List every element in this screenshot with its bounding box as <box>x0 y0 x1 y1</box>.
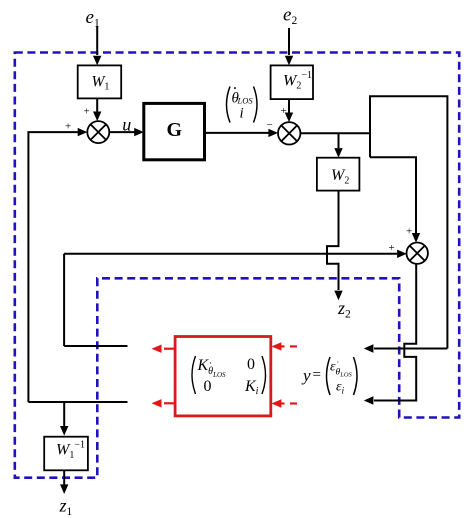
svg-text:+: + <box>281 105 287 117</box>
svg-text:0: 0 <box>204 378 212 395</box>
svg-text:G: G <box>167 119 183 141</box>
red dashed arrows (left outputs) <box>152 345 176 408</box>
svg-text:·: · <box>233 81 237 95</box>
block W2^-1 <box>271 65 313 99</box>
wire W1 to summing junction 1 <box>93 98 101 121</box>
feedback wire into junction 1 from left <box>28 128 87 402</box>
summing junction 1 <box>87 121 109 143</box>
summing junction 2 <box>278 122 300 144</box>
svg-text:+: + <box>84 106 90 118</box>
svg-text:y: y <box>301 366 311 385</box>
wire controller upper output leftward <box>64 345 127 347</box>
block G <box>144 103 205 159</box>
wire e2 to W2inv <box>285 28 293 65</box>
wire G to junction 2 <box>205 129 279 137</box>
red controller box K <box>175 337 271 416</box>
vector label (thetadot_LOS ; i) <box>227 81 258 123</box>
path from loop down into junction 3 <box>370 157 420 242</box>
svg-text:−: − <box>267 119 273 131</box>
vertical from controller upper output up to y=253 <box>63 254 65 346</box>
W2 output with crossover jog and arrow to z2 <box>327 191 343 301</box>
junction 3 output path with jog, to lower y input <box>364 264 416 405</box>
svg-text:=: = <box>313 367 321 383</box>
wire W2inv to junction 2 <box>285 99 293 122</box>
controller matrix <box>192 356 266 397</box>
block W2 <box>317 158 360 191</box>
svg-text:·: · <box>209 358 212 368</box>
branch down to W1inv <box>60 402 68 436</box>
svg-text:+: + <box>389 242 395 254</box>
label y = (eps_thetadot_LOS ; eps_i) <box>301 357 357 397</box>
svg-text:·: · <box>337 358 340 367</box>
right loop: up-and-over path <box>370 96 447 348</box>
wire junction 2 output to right <box>300 132 370 134</box>
branch down to W2 with arrow <box>334 133 342 157</box>
long horizontal wire into junction 3 from left <box>64 250 407 258</box>
wire junction1 to G <box>109 128 144 136</box>
summing junction 3 <box>407 243 428 264</box>
svg-text:0: 0 <box>247 356 255 373</box>
svg-text:LOS: LOS <box>237 96 254 106</box>
svg-text:i: i <box>240 106 244 122</box>
red dashed arrows (right inputs) <box>271 342 297 408</box>
block W1^-1 <box>44 437 88 471</box>
lower controller output wire to the left <box>28 401 127 403</box>
svg-text:+: + <box>406 226 412 238</box>
blue dashed boundary of generalized plant P <box>15 53 459 478</box>
block W1 <box>78 65 122 98</box>
svg-text:+: + <box>65 121 71 133</box>
wire e1 to W1 with arrow <box>93 26 101 65</box>
upper y input wire from right loop <box>364 344 448 352</box>
W1inv output arrow to z1 <box>60 470 68 494</box>
